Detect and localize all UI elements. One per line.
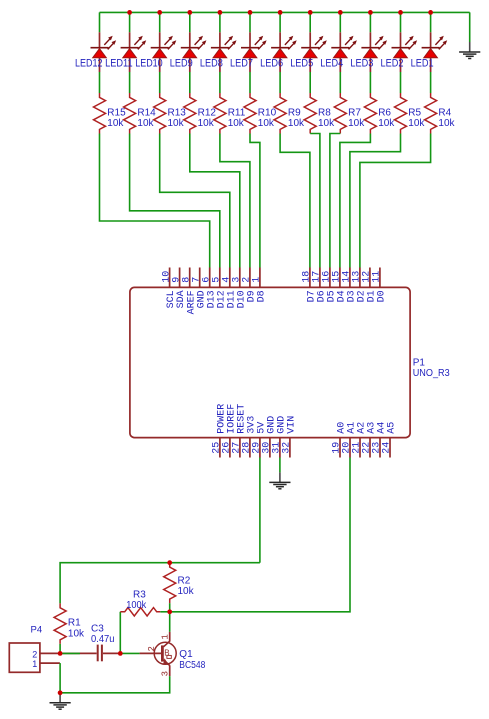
svg-text:LED3: LED3: [350, 58, 373, 70]
pin 32 VIN (bottom): [289, 438, 291, 458]
svg-text:10k: 10k: [68, 628, 85, 639]
connector P4: [9, 643, 40, 672]
svg-text:10k: 10k: [198, 118, 215, 129]
pin 1 P4: [40, 662, 60, 664]
wire bus to LED4: [339, 12, 341, 32]
pin 18 D7 (top): [309, 268, 311, 288]
junction bus 11: [398, 10, 403, 15]
svg-text:LED1: LED1: [411, 58, 434, 70]
resistor R15 10k: [94, 93, 106, 134]
pin 22 A3 (bottom): [369, 438, 371, 458]
svg-text:R6: R6: [378, 107, 391, 118]
svg-text:10k: 10k: [408, 118, 425, 129]
svg-text:LED9: LED9: [170, 58, 193, 70]
svg-text:R3: R3: [133, 590, 146, 601]
svg-text:R15: R15: [107, 107, 126, 118]
wire R10 to IC pin: [250, 134, 260, 268]
pin 31 GND (bottom): [279, 438, 281, 458]
junction node R2/R3/A1/collector: [167, 609, 172, 614]
wire R7 to IC pin: [330, 134, 340, 268]
wire bus to LED11: [129, 12, 131, 32]
junction C3/R3/base: [118, 651, 123, 656]
op-amp U1 : IC P1 UNO_R3 box: [130, 287, 410, 437]
svg-text:UNO_R3: UNO_R3: [413, 368, 450, 379]
LED LED9: [181, 32, 207, 72]
svg-text:D8: D8: [257, 290, 268, 302]
svg-text:R14: R14: [137, 107, 156, 118]
svg-text:10k: 10k: [258, 118, 275, 129]
resistor R4 10k: [425, 93, 437, 134]
svg-text:1: 1: [160, 634, 170, 639]
wire R1 bottom: [59, 644, 61, 654]
wire C3 node to Q1 base: [120, 652, 139, 654]
junction P4.2/R1/C3: [58, 651, 63, 656]
wire bus to ground: [469, 12, 471, 42]
resistor R14 10k: [124, 93, 136, 134]
pin 9 SDA (top): [179, 268, 181, 288]
svg-text:R1: R1: [68, 618, 81, 629]
svg-text:R5: R5: [408, 107, 421, 118]
svg-text:A5: A5: [387, 422, 398, 434]
ground top right: [459, 42, 480, 59]
wire R15 to IC pin: [100, 134, 210, 268]
wire R2 bottom: [169, 603, 171, 612]
svg-text:BC548: BC548: [179, 660, 205, 671]
svg-text:1: 1: [252, 277, 263, 283]
wire bus to LED7: [249, 12, 251, 32]
svg-text:R7: R7: [348, 107, 361, 118]
wire R11 to IC pin: [220, 134, 250, 268]
wire A1 to R2 bottom node: [170, 458, 350, 612]
LED LED2: [392, 32, 418, 72]
pin 2 P4: [40, 652, 60, 654]
resistor R12 10k: [184, 93, 196, 134]
svg-text:2: 2: [32, 649, 37, 659]
svg-text:LED12: LED12: [75, 58, 103, 70]
pin 20 A1 (bottom): [349, 438, 351, 458]
pin 30 GND (bottom): [269, 438, 271, 458]
pin 19 A0 (bottom): [339, 438, 341, 458]
wire R8 to IC pin: [310, 134, 320, 268]
svg-text:LED4: LED4: [320, 58, 343, 70]
pin 29 5V (bottom): [259, 438, 261, 458]
svg-text:10k: 10k: [378, 118, 395, 129]
svg-text:10k: 10k: [107, 118, 124, 129]
wire LED7 to R10: [249, 72, 251, 93]
wire LED4 to R7: [339, 72, 341, 93]
svg-text:R4: R4: [438, 107, 451, 118]
svg-text:LED7: LED7: [230, 58, 253, 70]
pin 27 RESET (bottom): [239, 438, 241, 458]
wire LED5 to R8: [309, 72, 311, 93]
pin 16 D5 (top): [329, 268, 331, 288]
wire C3 node riser to R3: [119, 612, 121, 654]
wire bus to LED2: [400, 12, 402, 32]
transistor Q1 BC548: [140, 632, 177, 676]
svg-text:10k: 10k: [168, 118, 185, 129]
junction bus 4: [187, 10, 192, 15]
wire P4.1 to ground rail: [59, 663, 61, 693]
pin 1 D8 (top): [259, 268, 261, 288]
capacitor C3 0.47u: [60, 645, 120, 662]
svg-text:VIN: VIN: [287, 416, 298, 434]
svg-text:R10: R10: [258, 107, 277, 118]
wire GND pin to ground: [279, 458, 281, 473]
wire R4 to IC pin: [360, 134, 431, 268]
junction bus 7: [278, 10, 283, 15]
wire node to Q1 collector: [169, 612, 171, 632]
pin 7 GND (top): [199, 268, 201, 288]
svg-text:P4: P4: [31, 624, 43, 635]
junction bus 3: [157, 10, 162, 15]
svg-text:R2: R2: [178, 576, 191, 587]
svg-text:10k: 10k: [348, 118, 365, 129]
svg-text:0.47u: 0.47u: [91, 634, 115, 645]
junction ground rail: [58, 690, 63, 695]
svg-text:C3: C3: [91, 624, 104, 635]
svg-text:10k: 10k: [318, 118, 335, 129]
wire bus to LED9: [189, 12, 191, 32]
LED LED10: [151, 32, 177, 72]
resistor R6 10k: [364, 93, 376, 134]
ground IC: [269, 472, 290, 488]
LED LED7: [241, 32, 267, 72]
pin 28 3V3 (bottom): [249, 438, 251, 458]
wire R14 to IC pin: [130, 134, 220, 268]
resistor R11 10k: [214, 93, 226, 134]
junction bus 9: [338, 10, 343, 15]
wire 5V down: [259, 458, 261, 563]
wire LED1 to R4: [430, 72, 432, 93]
pin 3 D10 (top): [239, 268, 241, 288]
junction bus 12: [428, 10, 433, 15]
LED LED4: [331, 32, 357, 72]
svg-text:R11: R11: [228, 107, 246, 118]
junction bus 2: [127, 10, 132, 15]
pin 10 SCL (top): [169, 268, 171, 288]
junction bus 10: [368, 10, 373, 15]
pin 26 IOREF (bottom): [229, 438, 231, 458]
resistor R2 10k: [164, 563, 176, 604]
svg-text:10k: 10k: [137, 118, 154, 129]
wire LED9 to R12: [189, 72, 191, 93]
wire LED11 to R14: [129, 72, 131, 93]
pin 15 D4 (top): [339, 268, 341, 288]
wire bus to LED12: [99, 12, 101, 32]
pin 17 D6 (top): [319, 268, 321, 288]
svg-text:11: 11: [372, 271, 383, 283]
wire bus to LED3: [369, 12, 371, 32]
LED LED12: [91, 32, 117, 72]
pin 11 D0 (top): [379, 268, 381, 288]
LED LED5: [301, 32, 327, 72]
svg-text:2: 2: [147, 646, 157, 651]
wire bus to LED8: [219, 12, 221, 32]
wire emitter to ground rail: [60, 676, 170, 693]
svg-text:LED11: LED11: [105, 58, 133, 70]
wire bus to LED1: [430, 12, 432, 32]
wire 5V rail to R1: [60, 563, 260, 604]
svg-text:LED5: LED5: [290, 58, 313, 70]
ground bottom: [50, 693, 71, 709]
svg-text:R12: R12: [198, 107, 217, 118]
wire LED10 to R13: [159, 72, 161, 93]
svg-text:100k: 100k: [126, 600, 147, 611]
LED LED8: [211, 32, 237, 72]
wire bus to LED10: [159, 12, 161, 32]
svg-text:R9: R9: [288, 107, 301, 118]
wire LED8 to R11: [219, 72, 221, 93]
wire R13 to IC pin: [160, 134, 230, 268]
svg-text:10k: 10k: [288, 118, 305, 129]
svg-text:3: 3: [160, 671, 170, 676]
pin 5 D12 (top): [219, 268, 221, 288]
pin 14 D3 (top): [349, 268, 351, 288]
resistor R3 100k: [120, 608, 160, 616]
wire bus to LED6: [279, 12, 281, 32]
svg-text:24: 24: [382, 442, 393, 454]
wire LED6 to R9: [279, 72, 281, 93]
pin 8 AREF (top): [189, 268, 191, 288]
pin 4 D11 (top): [229, 268, 231, 288]
svg-text:R13: R13: [168, 107, 187, 118]
svg-text:R8: R8: [318, 107, 331, 118]
junction bus 6: [248, 10, 253, 15]
LED LED11: [121, 32, 147, 72]
resistor R10 10k: [244, 93, 256, 134]
svg-text:1: 1: [32, 659, 37, 669]
wire bus to LED5: [309, 12, 311, 32]
wire R6 to IC pin: [340, 134, 371, 268]
wire VCC bus: [100, 11, 470, 13]
resistor R13 10k: [154, 93, 166, 134]
pin 23 A4 (bottom): [379, 438, 381, 458]
svg-text:32: 32: [282, 442, 293, 454]
junction bus 8: [308, 10, 313, 15]
svg-text:D0: D0: [377, 290, 388, 302]
wire R9 to IC pin: [280, 134, 310, 268]
wire R3 to node: [160, 611, 169, 613]
resistor R8 10k: [304, 93, 316, 134]
junction R2 top / 5V rail: [167, 560, 172, 565]
svg-text:Q1: Q1: [179, 649, 193, 660]
svg-text:LED6: LED6: [260, 58, 283, 70]
resistor R7 10k: [334, 93, 346, 134]
wire LED12 to R15: [99, 72, 101, 93]
wire R1 node to C3: [60, 652, 80, 654]
svg-text:LED2: LED2: [381, 58, 404, 70]
pin 24 A5 (bottom): [389, 438, 391, 458]
pin 25 POWER (bottom): [219, 438, 221, 458]
wire LED3 to R6: [369, 72, 371, 93]
LED LED3: [361, 32, 387, 72]
resistor R1 10k: [54, 603, 66, 644]
svg-text:10k: 10k: [438, 118, 455, 129]
pin 13 D2 (top): [359, 268, 361, 288]
svg-text:LED8: LED8: [200, 58, 223, 70]
pin 2 D9 (top): [249, 268, 251, 288]
wire R12 to IC pin: [190, 134, 240, 268]
pin 21 A2 (bottom): [359, 438, 361, 458]
svg-text:10k: 10k: [178, 586, 195, 597]
svg-text:LED10: LED10: [135, 58, 163, 70]
wire LED2 to R5: [400, 72, 402, 93]
pin 12 D1 (top): [369, 268, 371, 288]
LED LED1: [422, 32, 448, 72]
LED LED6: [271, 32, 297, 72]
wire R5 to IC pin: [350, 134, 401, 268]
svg-text:10k: 10k: [228, 118, 245, 129]
resistor R5 10k: [395, 93, 407, 134]
junction bus 5: [218, 10, 223, 15]
pin 6 D13 (top): [209, 268, 211, 288]
resistor R9 10k: [274, 93, 286, 134]
